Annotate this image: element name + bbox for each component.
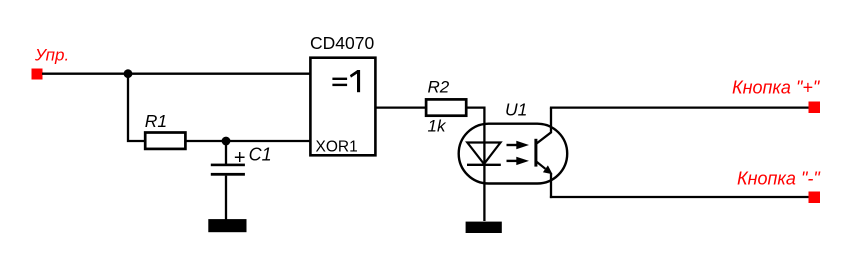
wire: collector net to pad Кнопка "+" <box>550 106 809 108</box>
svg-text:U1: U1 <box>505 100 527 120</box>
gate function symbol =1 <box>332 70 360 92</box>
LED cathode bar of U1 <box>467 164 501 166</box>
wire: emitter down to bottom rail corner <box>550 174 552 199</box>
capacitor C1 bottom plate <box>211 173 245 176</box>
light arrow 2 head <box>516 157 529 165</box>
svg-text:Кнопка "+": Кнопка "+" <box>732 78 821 98</box>
pad Кнопка "+" <box>809 102 821 114</box>
wire: C1 bottom plate to ground <box>225 176 227 220</box>
LED triangle of U1 <box>467 143 500 165</box>
wire: R1 right lead to XOR1 input B <box>187 140 312 142</box>
wire: node B down to C1 top plate <box>225 141 227 164</box>
svg-text:CD4070: CD4070 <box>310 33 374 53</box>
svg-text:1k: 1k <box>428 117 447 136</box>
light arrow 2 shaft <box>507 160 518 162</box>
optocoupler U1 body <box>459 124 568 184</box>
resistor R2 <box>426 99 466 115</box>
wire: node A down and right to R1 left lead <box>128 74 146 141</box>
wire: pad Упр. to XOR1 input A <box>42 73 311 75</box>
phototransistor base bar <box>534 139 537 167</box>
junction: node B (C1 tap) <box>222 137 231 146</box>
ground (below C1) <box>208 219 246 232</box>
svg-text:Упр.: Упр. <box>34 45 69 64</box>
phototransistor emitter lead <box>536 162 545 169</box>
wire: XOR1 output to R2 left lead <box>375 106 427 108</box>
light arrow 1 shaft <box>507 144 518 146</box>
phototransistor emitter arrow head <box>543 165 553 174</box>
light arrow 1 head <box>516 141 529 149</box>
wire: R2 right lead to LED anode and down through U1 to ground <box>465 108 484 221</box>
pad Упр. <box>32 69 43 80</box>
phototransistor collector lead <box>536 108 551 144</box>
svg-text:Кнопка "-": Кнопка "-" <box>737 169 821 189</box>
svg-text:XOR1: XOR1 <box>316 139 358 156</box>
wire: emitter net to pad Кнопка "-" <box>550 196 809 198</box>
ground (below U1 LED) <box>466 222 502 233</box>
resistor R1 <box>145 133 185 149</box>
junction: node A <box>124 69 133 78</box>
svg-text:R2: R2 <box>428 78 450 97</box>
svg-text:C1: C1 <box>249 145 272 165</box>
pad Кнопка "-" <box>809 192 821 204</box>
XOR gate XOR1 body (CD4070) <box>310 58 375 156</box>
svg-text:R1: R1 <box>145 111 167 131</box>
svg-text:+: + <box>234 147 246 169</box>
capacitor C1 top plate <box>211 164 245 167</box>
